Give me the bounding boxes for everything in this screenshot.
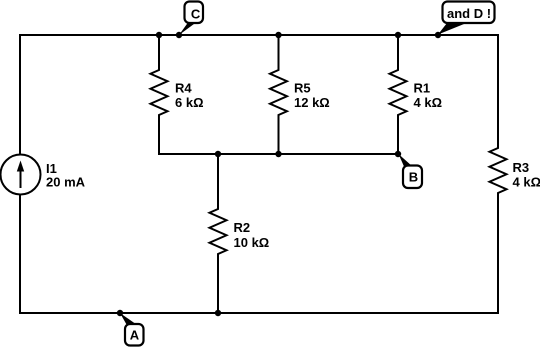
svg-text:12 kΩ: 12 kΩ [294, 95, 330, 110]
svg-text:4 kΩ: 4 kΩ [513, 175, 540, 190]
svg-text:10 kΩ: 10 kΩ [234, 235, 270, 250]
svg-text:20 mA: 20 mA [46, 175, 86, 190]
svg-text:R3: R3 [513, 160, 530, 175]
svg-text:A: A [130, 327, 140, 342]
svg-text:and D !: and D ! [447, 6, 491, 21]
svg-text:R4: R4 [175, 80, 192, 95]
svg-text:R5: R5 [294, 80, 311, 95]
svg-text:6 kΩ: 6 kΩ [175, 95, 204, 110]
svg-text:B: B [409, 170, 418, 185]
svg-text:R2: R2 [234, 220, 251, 235]
svg-text:4 kΩ: 4 kΩ [414, 95, 443, 110]
svg-text:R1: R1 [414, 80, 431, 95]
svg-text:C: C [191, 6, 201, 21]
